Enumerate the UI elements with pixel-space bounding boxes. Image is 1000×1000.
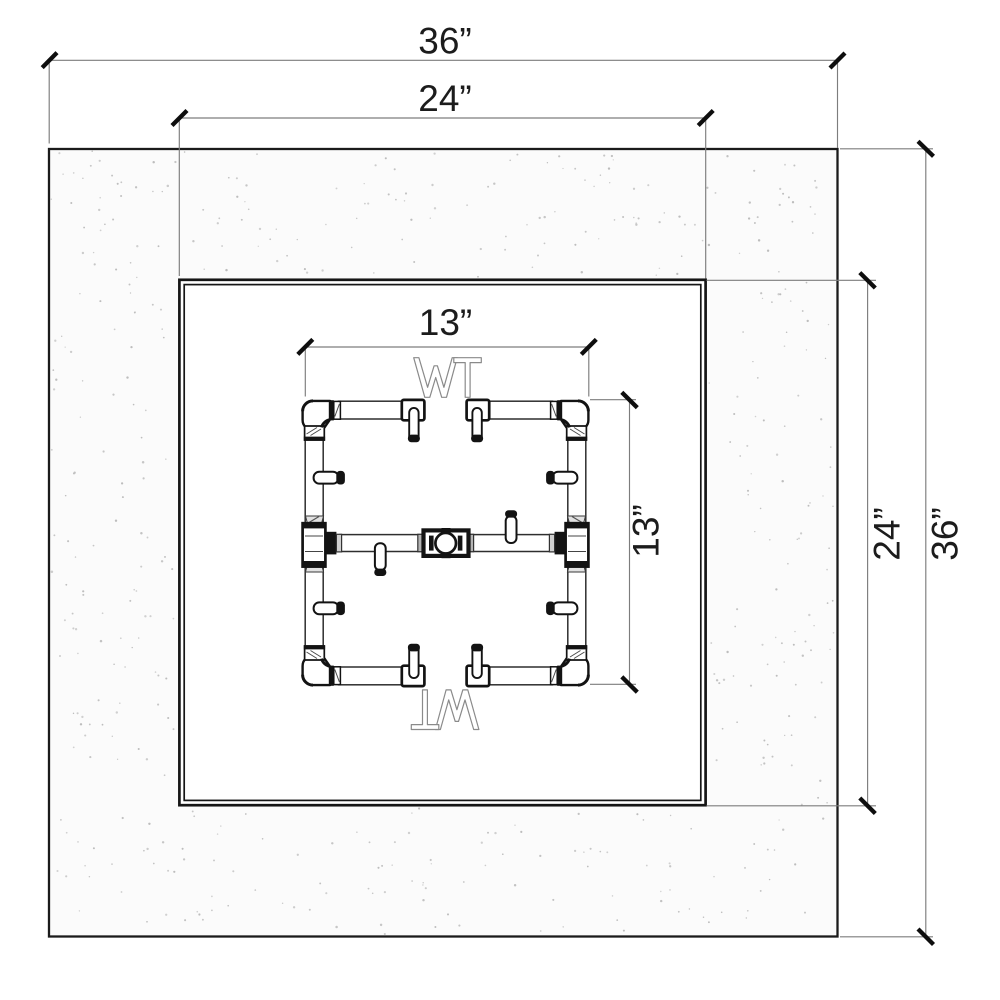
mid tee left xyxy=(303,516,342,572)
svg-text:13”: 13” xyxy=(626,504,667,557)
elbow top-right xyxy=(551,400,589,441)
tick bottom of 24in right xyxy=(860,798,876,814)
WT watermark top (hollow letters) xyxy=(414,358,482,398)
tick left of 13in top xyxy=(298,339,313,354)
tick top of 13in right xyxy=(622,392,638,407)
tee with port bottom-left xyxy=(402,644,425,686)
extension line right of 36in top xyxy=(837,60,839,148)
tick right of 13in top xyxy=(581,339,596,354)
wire: right vertical pipe xyxy=(568,436,586,649)
mid-pipe port up xyxy=(505,510,517,543)
tick bottom of 36in right xyxy=(918,929,934,945)
extension line bottom of 36in right xyxy=(840,936,933,938)
mid-pipe port down xyxy=(374,543,386,576)
tee with port top-right xyxy=(467,400,490,442)
side port lower-right xyxy=(546,602,577,616)
extension line left of 24in top xyxy=(178,118,180,276)
24in top dimension line xyxy=(179,117,705,119)
elbow top-left xyxy=(303,400,341,441)
svg-text:24”: 24” xyxy=(418,78,471,119)
extension line top of 36in right xyxy=(840,148,933,150)
tick right of 36in top xyxy=(830,53,845,68)
wire: left vertical pipe xyxy=(305,436,323,649)
extension line top of 13in right xyxy=(590,399,636,401)
36in top dimension line xyxy=(49,59,838,61)
svg-text:24”: 24” xyxy=(867,507,908,560)
tee with port bottom-right xyxy=(467,644,490,686)
wire: top-right pipe xyxy=(488,401,553,419)
inner opening square inner line xyxy=(184,285,701,801)
extension line right of 24in top xyxy=(705,118,707,279)
extension line left of 13in top xyxy=(304,347,306,397)
13in right dimension line xyxy=(629,400,631,685)
wire: top-left pipe xyxy=(339,401,404,419)
24in right dimension line xyxy=(867,280,869,805)
wire: bottom-right pipe xyxy=(488,667,553,685)
wire: middle horizontal pipe xyxy=(340,535,551,552)
tick right of 24in top xyxy=(698,111,713,126)
tick top of 36in right xyxy=(918,141,934,156)
extension line right of 13in top xyxy=(588,347,590,397)
tick left of 36in top xyxy=(42,53,57,68)
side port upper-left xyxy=(314,471,345,485)
tick top of 24in right xyxy=(860,273,876,288)
center cross fitting xyxy=(418,528,474,558)
tick left of 24in top xyxy=(172,111,187,126)
side port upper-right xyxy=(546,471,577,485)
13in top dimension line xyxy=(305,346,589,348)
outer masonry square (36in) xyxy=(49,149,838,937)
inner opening square (24in) outer line xyxy=(179,280,705,805)
side port lower-left xyxy=(314,602,345,616)
svg-text:13”: 13” xyxy=(419,302,472,343)
mid tee right xyxy=(549,516,588,572)
tee with port top-left xyxy=(402,400,425,442)
extension line bottom of 24in right xyxy=(707,805,877,807)
svg-text:36”: 36” xyxy=(418,21,471,62)
extension line bottom of 13in right xyxy=(590,683,636,685)
tick bottom of 13in right xyxy=(622,677,638,692)
extension line left of 36in top xyxy=(48,60,50,143)
wire: bottom-left pipe xyxy=(339,667,404,685)
masonry speckle texture xyxy=(51,150,835,935)
extension line top of 24in right xyxy=(707,279,877,281)
svg-text:36”: 36” xyxy=(925,507,966,560)
burner pipes xyxy=(305,401,586,685)
36in right dimension line xyxy=(925,149,927,937)
WT watermark bottom (rotated 180) xyxy=(411,690,479,730)
elbow bottom-right xyxy=(551,645,589,686)
elbow bottom-left xyxy=(303,645,341,686)
